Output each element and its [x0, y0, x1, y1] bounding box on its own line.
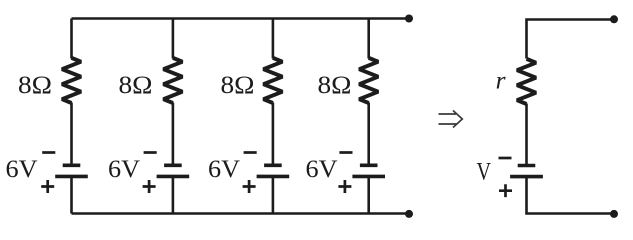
battery B2 plus polarity sign: [143, 180, 156, 193]
resistor r (equivalent internal resistance) zigzag: [517, 59, 536, 104]
svg-text:6V: 6V: [306, 154, 339, 183]
battery B3 plus polarity sign: [243, 180, 256, 193]
svg-text:8Ω: 8Ω: [119, 70, 153, 99]
svg-text:r: r: [496, 66, 506, 95]
battery V positive (long) plate: [510, 175, 543, 179]
battery B2 minus polarity sign: [144, 151, 157, 154]
svg-text:8Ω: 8Ω: [18, 70, 52, 99]
wire: branch 2 middle segment: [172, 103, 175, 166]
battery B4 minus polarity sign: [339, 151, 352, 154]
wire: branch 4 top segment: [367, 19, 370, 59]
wire: branch 4 bottom segment: [367, 176, 370, 213]
battery B1 minus polarity sign: [42, 151, 55, 154]
wire: equivalent branch middle segment: [525, 104, 528, 166]
wire: equivalent circuit bottom lead: [527, 177, 615, 214]
battery B4 plus polarity sign: [338, 180, 351, 193]
battery B3 positive (long) plate: [257, 175, 290, 179]
battery V negative (short) plate: [518, 164, 536, 168]
resistor R4 8ohm zigzag: [359, 58, 378, 103]
wire: branch 3 top segment: [272, 19, 275, 59]
battery B2 negative (short) plate: [164, 164, 182, 168]
wire: branch 2 bottom segment: [172, 176, 175, 213]
battery B3 negative (short) plate: [264, 164, 282, 168]
battery V plus polarity sign: [499, 184, 512, 197]
battery B4 negative (short) plate: [360, 164, 378, 168]
svg-text:6V: 6V: [6, 154, 39, 183]
battery B1 positive (long) plate: [55, 175, 88, 179]
svg-text:V: V: [477, 156, 492, 185]
wire: branch 2 top segment: [172, 19, 175, 59]
implication arrow (double arrow) between circuits: [439, 111, 463, 128]
node: equivalent bottom terminal dot: [610, 210, 618, 218]
svg-text:6V: 6V: [108, 154, 141, 183]
resistor R1 8ohm zigzag: [62, 58, 81, 103]
battery B1 negative (short) plate: [63, 164, 81, 168]
resistor R2 8ohm zigzag: [163, 58, 182, 103]
svg-text:6V: 6V: [208, 154, 241, 183]
battery B1 plus polarity sign: [41, 180, 54, 193]
wire: bottom rail of parallel bank: [72, 212, 410, 215]
wire: equivalent circuit top lead: [527, 20, 615, 59]
wire: branch 3 middle segment: [272, 103, 275, 166]
wire: branch 3 bottom segment: [272, 176, 275, 213]
battery B2 positive (long) plate: [157, 175, 190, 179]
battery V minus polarity sign: [499, 157, 512, 160]
wire: top rail of parallel bank: [72, 17, 410, 20]
wire: branch 1 top segment: [70, 19, 73, 59]
resistor R3 8ohm zigzag: [263, 58, 282, 103]
wire: branch 1 bottom segment: [70, 176, 73, 213]
battery B4 positive (long) plate: [352, 175, 385, 179]
node: bottom output terminal dot: [405, 210, 413, 218]
svg-text:8Ω: 8Ω: [318, 70, 352, 99]
svg-text:8Ω: 8Ω: [221, 70, 255, 99]
node: equivalent top terminal dot: [610, 15, 618, 23]
battery B3 minus polarity sign: [244, 151, 257, 154]
wire: branch 1 middle segment: [70, 103, 73, 166]
wire: branch 4 middle segment: [367, 103, 370, 166]
node: top output terminal dot: [405, 15, 413, 23]
